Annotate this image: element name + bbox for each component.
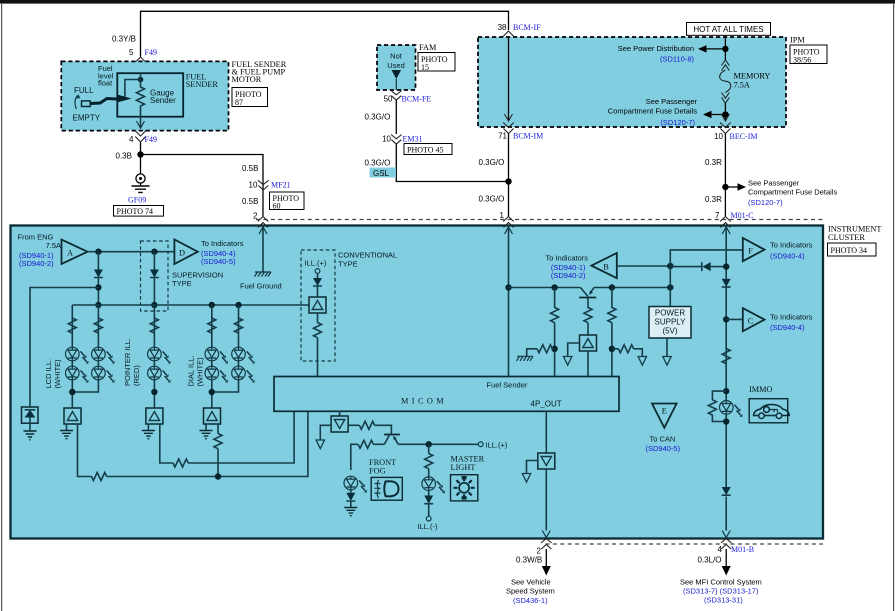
MICOM box [274, 377, 619, 412]
wire fuse to BEC-IM [724, 103, 726, 121]
photo box 34 [828, 243, 877, 256]
svg-text:See Power Distribution: See Power Distribution [618, 44, 694, 53]
wire node to diode to main [670, 266, 726, 288]
node: EM31 junction [505, 178, 511, 184]
arrow to See Passenger Compartment Fuse Details [711, 114, 725, 116]
diode col2 [94, 270, 103, 278]
connector 7 chevrons at cluster top [720, 217, 731, 228]
svg-text:PHOTO 34: PHOTO 34 [831, 246, 868, 255]
resistor: gauge sender element [137, 73, 145, 117]
svg-text:BCM-IF: BCM-IF [513, 23, 541, 32]
open arrow out [564, 357, 572, 366]
diode D-main (points left) [703, 262, 711, 271]
resistor IMMO [708, 400, 716, 415]
resistor col1 [68, 318, 76, 333]
fog icon box [371, 477, 402, 500]
svg-text:A: A [67, 249, 73, 258]
wire elbow buffer5 to open arrow [568, 343, 580, 357]
wire 4P_OUT drop [545, 411, 547, 453]
wire branch to resistor [428, 444, 430, 453]
diode conventional [313, 278, 322, 286]
wire BCM-IF through IPM box [508, 37, 510, 121]
wire node up to amp F [670, 250, 743, 266]
FAM not-used dashed box [377, 45, 416, 90]
svg-text:EM31: EM31 [403, 135, 423, 144]
dashed boundary line below cluster [546, 543, 824, 545]
svg-text:GF09: GF09 [128, 196, 146, 205]
resistor to open arrow (right) [612, 348, 619, 350]
svg-text:(RED): (RED) [132, 365, 141, 386]
svg-text:60: 60 [273, 202, 281, 211]
wire R2 to fog lamp [351, 444, 358, 470]
node dial col4 [209, 302, 215, 308]
lamp FRONT FOG [344, 476, 367, 493]
svg-text:Sender: Sender [150, 96, 176, 105]
wire: fuel sender feed to BCM-IF (top run) [141, 11, 509, 56]
node: B-column [551, 284, 557, 290]
instrument cluster box [11, 226, 824, 539]
wire: branch to cluster fuel ground [141, 155, 264, 217]
float symbol (rod and float) [82, 101, 91, 107]
svg-text:HOT AT ALL TIMES: HOT AT ALL TIMES [693, 25, 763, 34]
op-amp A [62, 240, 88, 265]
ground under buffer3 [200, 431, 213, 439]
wire buffer1 output to low bus [78, 424, 92, 477]
svg-text:Used: Used [387, 61, 405, 70]
lamp LCD2 [66, 366, 89, 383]
svg-text:E: E [662, 407, 667, 416]
wire elbow buffer to open arrow [320, 425, 331, 440]
POWER SUPPLY box [649, 307, 691, 339]
svg-text:0.5B: 0.5B [242, 164, 258, 173]
photo box 87 [232, 88, 268, 107]
connector BCM-IM pin 71 [503, 123, 514, 134]
svg-text:(SD120-7): (SD120-7) [748, 198, 783, 207]
resistor main column [722, 349, 730, 364]
svg-text:float: float [98, 79, 113, 88]
terminal ILL(-) [426, 516, 431, 521]
connector EM31 pin 10 [391, 135, 402, 145]
photo box 74 [114, 206, 164, 217]
svg-text:To CAN: To CAN [650, 435, 676, 444]
buffer 4P_OUT (down) [538, 453, 555, 469]
open arrow out power supply [663, 357, 671, 366]
svg-text:(SD436-1): (SD436-1) [513, 596, 548, 605]
ground under fog lamp [344, 508, 357, 516]
op-amp E (points down) [652, 404, 677, 428]
resistor col5 [235, 318, 243, 333]
svg-text:BEC-IM: BEC-IM [730, 132, 758, 141]
connector BCM-IF pin 38 [503, 31, 514, 42]
lamp PTR2 [148, 366, 171, 383]
svg-text:0.3Y/B: 0.3Y/B [112, 35, 136, 44]
wire column x612 [611, 288, 613, 377]
svg-text:FAM: FAM [419, 43, 437, 52]
svg-text:(SD940-4): (SD940-4) [770, 323, 805, 332]
dashed boundary line above cluster [256, 219, 823, 221]
master light icon box [451, 475, 478, 501]
node col2 upper (zener branch) [95, 284, 101, 290]
svg-text:MF21: MF21 [271, 181, 291, 190]
lamp bus [72, 304, 309, 306]
connector 1 chevrons at cluster top [503, 217, 514, 228]
node col1/col2 join [69, 389, 75, 395]
open arrow out 4P_OUT [522, 474, 530, 483]
svg-text:87: 87 [235, 98, 243, 107]
svg-text:10: 10 [249, 181, 258, 190]
svg-text:10: 10 [714, 132, 723, 141]
arrow at IPM bottom (left wire) [505, 114, 513, 121]
node: power supply tap [667, 284, 673, 290]
wire buffer4 to resistor [317, 313, 319, 323]
svg-text:M01-B: M01-B [731, 545, 754, 554]
wire R1 to transistor base [375, 425, 392, 433]
svg-text:38: 38 [498, 23, 507, 32]
svg-text:TYPE: TYPE [338, 259, 358, 268]
arrow out of cluster at pin 4 [722, 531, 730, 538]
svg-text:LIGHT: LIGHT [451, 463, 476, 472]
connector BEC-IM pin 10 [720, 123, 731, 134]
node col2 lower [95, 302, 101, 308]
fuse MEMORY 7.5A [724, 49, 726, 60]
svg-text:F49: F49 [145, 48, 157, 57]
arrow to See Power Distribution [706, 48, 725, 50]
node IMMO bottom [723, 418, 729, 424]
svg-text:DIAL ILL.: DIAL ILL. [187, 356, 196, 387]
svg-text:0.3G/O: 0.3G/O [479, 195, 505, 204]
buffer U3 dial [204, 408, 221, 424]
svg-text:71: 71 [498, 132, 507, 141]
buffer U5 (up) [580, 335, 597, 351]
svg-text:To Indicators: To Indicators [545, 254, 588, 263]
main wire M01-C through cluster [725, 226, 727, 531]
wire EM31 to junction [396, 144, 508, 182]
diode D-drop (points down) [722, 279, 731, 287]
wire: amp A output bus to amp D [88, 251, 175, 253]
wire to buffer5 [587, 323, 589, 335]
svg-text:TYPE: TYPE [172, 279, 192, 288]
photo box 45 [404, 144, 452, 155]
supervision dashed box [141, 241, 169, 311]
wire buffer to cluster edge [545, 469, 547, 531]
svg-text:7.5A: 7.5A [46, 241, 61, 250]
svg-text:ILL.(-): ILL.(-) [418, 522, 439, 531]
photo box 38/56 [790, 45, 827, 64]
svg-text:See Passenger: See Passenger [748, 179, 800, 188]
arrow out of fuel sender box [137, 121, 145, 128]
resistor R-lcd out [92, 473, 107, 481]
wire low bus to micom [107, 411, 308, 476]
svg-text:B: B [603, 263, 609, 272]
resistor column x554 [551, 308, 559, 323]
svg-text:See Passenger: See Passenger [646, 97, 698, 106]
wire buffer2 output to mid bus [160, 424, 173, 463]
svg-text:D: D [179, 249, 185, 258]
wire fuel sender signal (pin 1) into micom [508, 226, 510, 377]
svg-text:(5V): (5V) [662, 327, 677, 336]
connector pin 2 bottom [541, 539, 552, 550]
svg-text:Not: Not [390, 52, 403, 61]
svg-text:FOG: FOG [369, 466, 386, 475]
label HOT AT ALL TIMES [687, 23, 771, 36]
wire: pin4 down to ground GF09 [140, 142, 142, 174]
connector F49 pin 5 (chevrons) [135, 57, 146, 69]
op-amp F [743, 238, 765, 261]
connector 2 chevrons at cluster top [258, 217, 269, 228]
node: middle bus tap [505, 284, 511, 290]
wire: col2 drop [97, 252, 99, 270]
wire: supervision diode drop [153, 252, 155, 270]
svg-text:0.3L/O: 0.3L/O [698, 556, 722, 565]
wire col5 dial ill right [212, 305, 239, 392]
svg-text:(SD120-7): (SD120-7) [660, 118, 695, 127]
wire buffer3 output [217, 424, 219, 477]
fuel sender assembly dashed box [61, 61, 228, 130]
svg-text:FULL: FULL [74, 86, 94, 95]
wire buffer1 to ground [66, 424, 68, 431]
wire BCM-IM down to cluster pin 1 [508, 134, 510, 217]
resistor col3 [150, 318, 158, 333]
node: wiper tap [138, 77, 144, 83]
wire buffer to resistor R1 [348, 424, 359, 426]
node: power distribution branch [722, 46, 728, 52]
arrow into cluster at pin 7 [722, 227, 730, 234]
ground GF09 (body ground) [136, 174, 145, 183]
svg-text:F: F [748, 247, 753, 256]
top border bar [0, 0, 895, 4]
wire elbow to open arrow [527, 461, 538, 474]
resistor R-pointer out [173, 459, 188, 467]
svg-text:MEMORY: MEMORY [734, 72, 771, 81]
svg-text:(SD313-31): (SD313-31) [704, 596, 743, 605]
lamp DIAL4 [232, 366, 255, 383]
diode under fog lamp [346, 493, 355, 501]
svg-text:7: 7 [715, 211, 720, 220]
node on bus [95, 249, 101, 255]
svg-text:0.3G/O: 0.3G/O [479, 158, 505, 167]
node diode branch [723, 263, 729, 269]
float travel arc arrow [75, 96, 78, 110]
svg-text:To Indicators: To Indicators [770, 313, 813, 322]
resistor col2 [94, 318, 102, 333]
net tag GSL [370, 168, 397, 178]
lamp LCD3 [92, 347, 115, 364]
wire elbow to hatch ground [527, 349, 537, 357]
arrow down See Vehicle Speed [545, 549, 547, 567]
node: branch to MF21 [137, 151, 143, 157]
transistor Q2 [384, 434, 400, 436]
svg-text:0.5B: 0.5B [242, 197, 258, 206]
left page border [1, 3, 3, 611]
chassis ground (micom input) [517, 356, 534, 361]
wire IMMO resistor branch [712, 391, 726, 421]
node x554 [551, 346, 557, 352]
resistor R-dial out [214, 434, 222, 449]
svg-text:IMMO: IMMO [749, 385, 773, 394]
node: right column [609, 284, 615, 290]
middle bus left segment [509, 287, 581, 289]
lamp PTR1 [148, 347, 171, 364]
node: passenger fuse branch [722, 184, 728, 190]
svg-text:BCM-FE: BCM-FE [402, 95, 432, 104]
ground zener box [22, 407, 39, 423]
svg-text:(WHITE): (WHITE) [196, 357, 205, 387]
node dial col5 [235, 302, 241, 308]
arrow right to See Passenger Compartment Fuse Details [725, 186, 738, 188]
svg-text:POWER: POWER [655, 309, 685, 318]
svg-text:PHOTO 74: PHOTO 74 [117, 207, 154, 216]
buffer U2 pointer [146, 408, 163, 424]
svg-text:10: 10 [382, 135, 391, 144]
svg-text:GSL: GSL [373, 169, 390, 178]
svg-text:IPM: IPM [790, 36, 805, 45]
wire transistor emitter to ILL(+) [398, 443, 478, 445]
wire col3 pointer ill [153, 305, 155, 408]
op-amp C [743, 308, 765, 331]
wire BCM-FE to EM31 [395, 100, 397, 134]
svg-text:CLUSTER: CLUSTER [828, 233, 865, 242]
car silhouette with key [754, 405, 790, 416]
right page border [893, 3, 895, 611]
svg-text:2: 2 [537, 547, 542, 556]
svg-text:BCM-IM: BCM-IM [513, 132, 543, 141]
svg-text:(SD110-8): (SD110-8) [660, 55, 695, 64]
svg-text:1: 1 [500, 211, 505, 220]
connector M01-B pin 4 [721, 539, 732, 550]
svg-text:See MFI Control System: See MFI Control System [680, 578, 762, 587]
svg-text:Speed System: Speed System [506, 587, 555, 596]
resistor R1 fog [359, 421, 374, 429]
wire power supply feed [669, 288, 671, 307]
wire buffer2 to ground [147, 424, 149, 431]
lamp DIAL2 [205, 366, 228, 383]
terminal ILL(+) [478, 442, 483, 447]
connector BCM-FE pin 50 [391, 91, 402, 101]
svg-text:50: 50 [384, 95, 393, 104]
wire wiper [125, 80, 141, 97]
svg-text:C: C [748, 317, 754, 326]
node amp B feed [667, 263, 673, 269]
lamp LCD4 [92, 366, 115, 383]
svg-text:4P_OUT: 4P_OUT [531, 400, 562, 409]
node: fuse output branch [722, 111, 728, 117]
ground under buffer1 [60, 431, 73, 439]
IMMO car icon box [749, 399, 788, 423]
resistor to ground (left) [552, 348, 554, 350]
wire fuel ground drop (pin 2) [262, 226, 264, 273]
wire buffer3 to ground [205, 424, 207, 431]
open arrow out [638, 357, 646, 366]
gauge sender inner box [117, 73, 183, 117]
svg-text:4: 4 [129, 135, 134, 144]
svg-text:F49: F49 [145, 135, 157, 144]
lamp DIAL3 [232, 347, 255, 364]
lamp DIAL1 [205, 347, 228, 364]
node amp C branch [723, 316, 729, 322]
wire: sender to pin 4 [140, 117, 142, 128]
buffer U1 lcd [64, 408, 81, 424]
svg-text:Compartment Fuse Details: Compartment Fuse Details [748, 188, 837, 197]
resistor R2 fog base [373, 443, 384, 445]
wire HOT feed into IPM [724, 35, 726, 49]
chassis ground fuel ground [255, 272, 272, 277]
arrow down See MFI [725, 549, 727, 567]
svg-text:0.3R: 0.3R [705, 158, 722, 167]
ground under zener [29, 423, 31, 431]
svg-text:See Vehicle: See Vehicle [511, 578, 551, 587]
wire to amp C [726, 318, 743, 320]
svg-text:38/56: 38/56 [793, 56, 811, 65]
arrow out of cluster at pin 2 [542, 531, 550, 538]
wire resistor to micom [317, 338, 319, 377]
svg-text:0.3R: 0.3R [705, 195, 722, 204]
svg-text:MOTOR: MOTOR [232, 75, 262, 84]
wire amp B to node [617, 265, 671, 267]
svg-text:0.3W/B: 0.3W/B [516, 556, 542, 565]
wire terminal to diode [317, 273, 319, 278]
svg-text:(SD940-4): (SD940-4) [770, 252, 805, 261]
svg-text:(SD940-5): (SD940-5) [646, 444, 681, 453]
node on low bus [215, 473, 221, 479]
svg-text:7.5A: 7.5A [734, 81, 750, 90]
wire power supply out [666, 338, 668, 357]
buffer U4 conventional [309, 297, 326, 313]
wire col2 lcd ill right [72, 305, 98, 392]
svg-text:(WHITE): (WHITE) [53, 359, 62, 389]
node supervision lower [151, 302, 157, 308]
arrow into cluster at pin 2 [259, 227, 267, 234]
node in supervision box [151, 249, 157, 255]
wire to zener [30, 288, 98, 408]
svg-text:0.3B: 0.3B [116, 152, 132, 161]
svg-text:(SD940-5): (SD940-5) [201, 257, 236, 266]
fog lamp icon [384, 481, 398, 496]
wire elbow to open arrow [634, 349, 643, 357]
arrow inside FAM box [392, 70, 402, 79]
node col3 [151, 389, 157, 395]
wire resistor to lamp [428, 469, 430, 477]
svg-text:SUPPLY: SUPPLY [655, 318, 687, 327]
svg-text:(SD313-7) (SD313-17): (SD313-7) (SD313-17) [683, 587, 759, 596]
connector F49 pin 4 (chevrons) [135, 131, 146, 143]
photo box 15 [418, 53, 455, 72]
connector MF21 (chevrons) [258, 180, 269, 190]
lamp MASTER LIGHT [422, 477, 445, 494]
svg-text:POINTER ILL.: POINTER ILL. [123, 338, 132, 386]
svg-text:Compartment Fuse Details: Compartment Fuse Details [608, 107, 697, 116]
lamp IMMO indicator [720, 401, 743, 418]
svg-text:To Indicators: To Indicators [770, 241, 813, 250]
transistor Q1 [580, 288, 594, 297]
svg-text:ILL.(+): ILL.(+) [305, 259, 327, 268]
wire mid bus to micom [188, 411, 294, 463]
op-amp B (points left) [591, 253, 616, 278]
wire column x554 [554, 288, 556, 377]
resistor master light [425, 454, 433, 469]
arrow into cluster at pin 1 [505, 227, 513, 234]
resistor col4 [208, 318, 216, 333]
svg-text:5: 5 [129, 48, 134, 57]
open arrow out fog buffer [316, 440, 324, 449]
svg-text:0.3G/O: 0.3G/O [365, 159, 391, 168]
node x612 [609, 346, 615, 352]
node IMMO top [723, 388, 729, 394]
IPM dashed box [478, 37, 786, 127]
svg-text:(SD940-2): (SD940-2) [19, 259, 54, 268]
svg-text:CONVENTIONAL: CONVENTIONAL [338, 251, 397, 260]
wire transistor base drop [587, 298, 589, 309]
svg-text:To Indicators: To Indicators [201, 239, 244, 248]
